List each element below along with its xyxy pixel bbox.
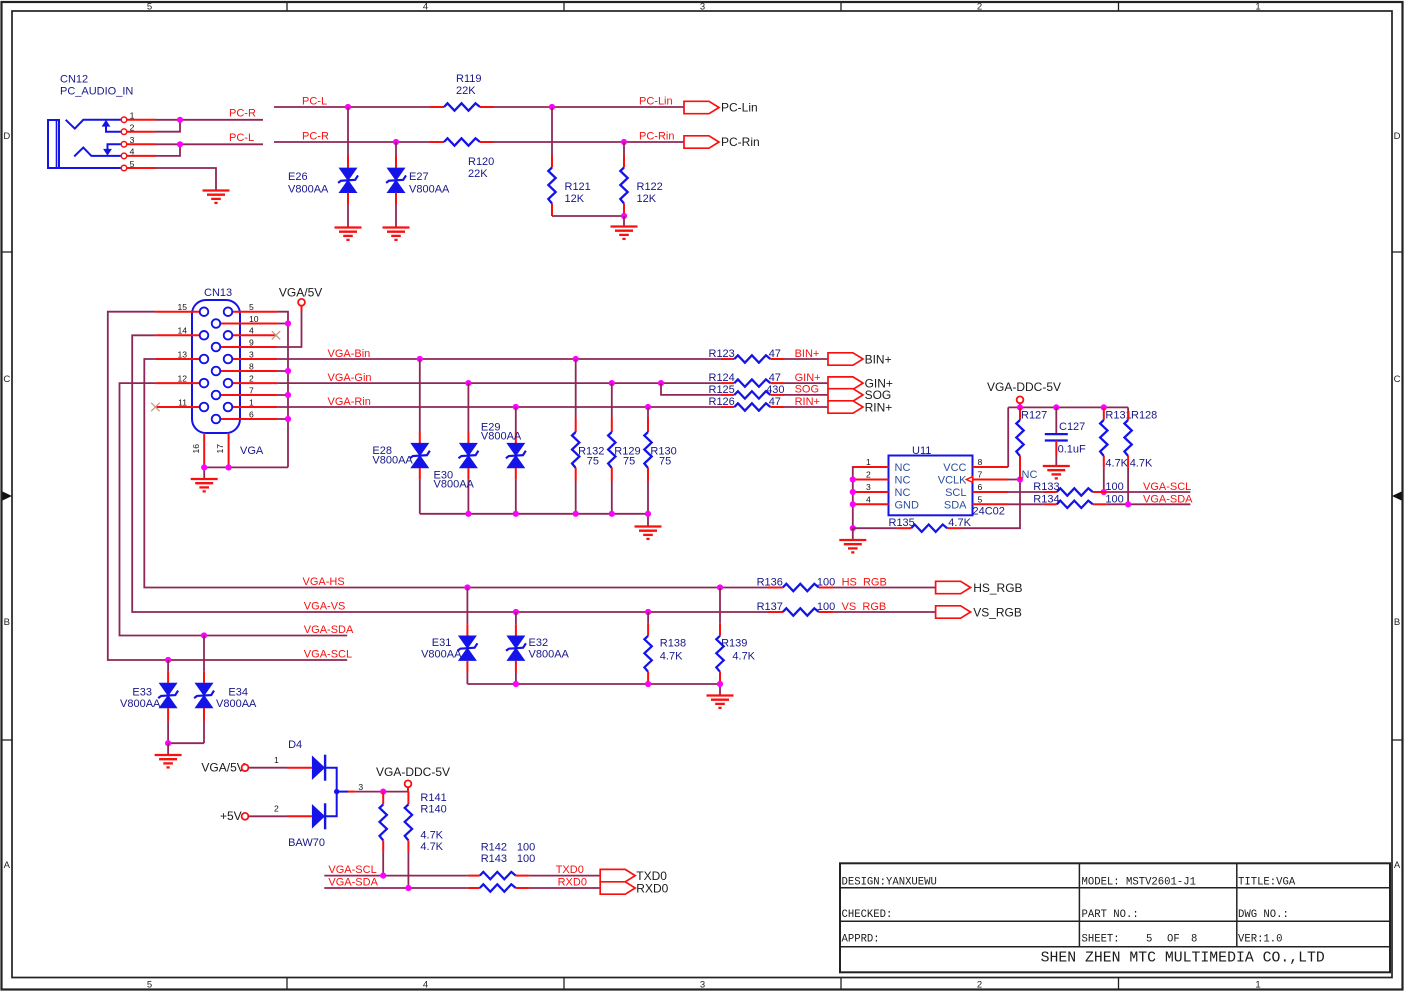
svg-text:11: 11 xyxy=(178,397,187,407)
svg-text:E31: E31 xyxy=(432,637,452,649)
svg-text:PC-Rin: PC-Rin xyxy=(721,135,760,149)
svg-text:100: 100 xyxy=(517,841,535,853)
resistor R138 4.7K xyxy=(644,612,686,684)
svg-text:B: B xyxy=(4,617,10,628)
svg-text:D: D xyxy=(1394,131,1401,142)
svg-text:VGA: VGA xyxy=(240,445,264,457)
svg-text:6: 6 xyxy=(249,409,254,419)
svg-text:VGA-Gin: VGA-Gin xyxy=(328,372,372,384)
svg-text:RIN+: RIN+ xyxy=(865,400,893,414)
wire net PC-R (CN12 pins 1,2) xyxy=(156,108,263,132)
svg-text:HS_RGB: HS_RGB xyxy=(842,576,887,588)
title block xyxy=(840,863,1390,972)
svg-text:R122: R122 xyxy=(637,181,663,193)
wire net VGA-SCL at U11 pin 6 xyxy=(1101,481,1192,495)
svg-text:DESIGN:YANXUEWU: DESIGN:YANXUEWU xyxy=(842,877,937,889)
svg-text:R121: R121 xyxy=(565,181,591,193)
TVS diode E29 V800AA xyxy=(481,407,526,514)
wire CN12 pin5 to ground xyxy=(156,168,216,190)
svg-text:4.7K: 4.7K xyxy=(420,830,443,842)
TVS diode E28 V800AA xyxy=(372,359,429,514)
svg-text:E32: E32 xyxy=(529,637,549,649)
ground at U11 pin 4 xyxy=(839,540,866,552)
svg-text:4.7K: 4.7K xyxy=(1130,458,1153,470)
svg-text:VCLK: VCLK xyxy=(938,475,967,487)
svg-text:1: 1 xyxy=(1255,980,1260,991)
svg-text:17: 17 xyxy=(215,444,225,454)
svg-text:PC-R: PC-R xyxy=(229,108,256,120)
svg-text:R126: R126 xyxy=(709,396,735,408)
svg-text:1: 1 xyxy=(1255,1,1260,12)
svg-text:R125: R125 xyxy=(709,384,735,396)
svg-text:R127: R127 xyxy=(1021,410,1047,422)
svg-text:V800AA: V800AA xyxy=(288,184,329,196)
svg-text:4: 4 xyxy=(423,1,428,12)
svg-text:4.7K: 4.7K xyxy=(948,517,971,529)
svg-text:VGA-SCL: VGA-SCL xyxy=(1143,481,1191,493)
wire net VGA-SDA (DDC to RXD0) xyxy=(324,877,468,892)
svg-text:100: 100 xyxy=(817,576,835,588)
svg-text:R135: R135 xyxy=(889,517,915,529)
svg-text:R143: R143 xyxy=(481,853,507,865)
port RXD0 xyxy=(529,877,669,896)
svg-text:22K: 22K xyxy=(468,168,488,180)
ground at CN13 shell xyxy=(191,479,218,491)
svg-text:0.1uF: 0.1uF xyxy=(1058,443,1086,455)
svg-text:RXD0: RXD0 xyxy=(636,881,668,895)
svg-text:R139: R139 xyxy=(721,637,747,649)
resistor R133 100 xyxy=(1033,481,1123,496)
svg-text:VS_RGB: VS_RGB xyxy=(973,605,1022,619)
svg-text:VGA-SCL: VGA-SCL xyxy=(304,649,352,661)
svg-text:NC: NC xyxy=(895,487,911,499)
svg-text:PC-Lin: PC-Lin xyxy=(721,101,758,115)
TVS diode E33 V800AA xyxy=(120,660,178,743)
svg-text:47: 47 xyxy=(769,396,781,408)
svg-text:+5V: +5V xyxy=(220,809,242,823)
svg-text:R140: R140 xyxy=(420,803,446,815)
svg-text:VGA/5V: VGA/5V xyxy=(201,760,244,774)
svg-text:E34: E34 xyxy=(228,686,248,698)
resistor R127 xyxy=(1016,407,1047,479)
svg-text:V800AA: V800AA xyxy=(216,698,257,710)
svg-text:5: 5 xyxy=(978,494,983,504)
svg-text:VS_RGB: VS_RGB xyxy=(842,601,887,613)
wire CN13 ground bus pins 5,10,8,7,6 xyxy=(277,312,291,468)
svg-text:VGA-SCL: VGA-SCL xyxy=(328,864,376,876)
svg-text:10: 10 xyxy=(249,314,259,324)
svg-text:SHEET:: SHEET: xyxy=(1082,934,1120,946)
resistor R125 430 xyxy=(709,384,785,399)
wire RGB termination bus xyxy=(420,511,651,526)
svg-text:R137: R137 xyxy=(757,601,783,613)
wire net VGA-SCL (DDC to TXD0) xyxy=(324,864,468,879)
svg-text:D4: D4 xyxy=(288,739,302,751)
svg-text:75: 75 xyxy=(659,455,671,467)
svg-text:E27: E27 xyxy=(409,171,429,183)
svg-text:8: 8 xyxy=(1191,934,1197,946)
svg-text:75: 75 xyxy=(587,455,599,467)
power symbol +5V at D4 pin 2 xyxy=(220,803,312,823)
svg-text:C: C xyxy=(3,374,10,385)
resistor R128 4.7K xyxy=(1124,407,1157,504)
svg-text:NC: NC xyxy=(895,475,911,487)
wire net VGA-SDA at U11 pin 5 xyxy=(1107,494,1193,508)
svg-text:2: 2 xyxy=(249,374,254,384)
port TXD0 xyxy=(529,864,667,883)
svg-text:D: D xyxy=(3,131,10,142)
wire net VGA-VS from CN13 pin 14 xyxy=(132,335,783,615)
svg-text:2: 2 xyxy=(977,980,982,991)
svg-text:GND: GND xyxy=(895,499,920,511)
wire net VGA-Bin from CN13 pin 3 xyxy=(277,348,720,362)
svg-text:VGA-SDA: VGA-SDA xyxy=(328,877,378,889)
wire net VGA-Rin from CN13 pin 1 xyxy=(277,396,720,410)
svg-text:100: 100 xyxy=(1105,493,1123,505)
svg-text:SOG: SOG xyxy=(795,384,819,396)
svg-text:VGA-Rin: VGA-Rin xyxy=(328,396,371,408)
power symbol VGA/5V at D4 pin 1 xyxy=(201,755,312,775)
resistor R121 12K xyxy=(548,107,590,216)
svg-text:A: A xyxy=(4,860,11,871)
port PC-Rin xyxy=(639,130,760,149)
svg-text:4: 4 xyxy=(866,494,871,504)
ground at R122 xyxy=(611,227,638,239)
svg-text:47: 47 xyxy=(769,372,781,384)
svg-text:V800AA: V800AA xyxy=(481,431,522,443)
resistor R141 4.7K xyxy=(380,792,447,876)
ground at C127 xyxy=(1043,466,1070,478)
svg-text:4.7K: 4.7K xyxy=(660,651,683,663)
power symbol VGA-DDC-5V at U11 xyxy=(987,380,1061,408)
svg-text:1: 1 xyxy=(866,457,871,467)
wire R121 bottom to R122 bottom xyxy=(552,215,624,217)
ground at E33/E34 xyxy=(155,755,182,767)
svg-text:PC-L: PC-L xyxy=(229,132,254,144)
svg-text:16: 16 xyxy=(191,444,201,454)
resistor R126 47 xyxy=(709,396,785,411)
svg-text:8: 8 xyxy=(249,361,254,371)
TVS diode E30 V800AA xyxy=(434,383,479,514)
svg-text:V800AA: V800AA xyxy=(372,454,413,466)
svg-text:BAW70: BAW70 xyxy=(288,837,325,849)
wire R135 to U11 pin 7 VCLK xyxy=(961,469,1037,528)
svg-text:5: 5 xyxy=(147,1,152,12)
diode D4 BAW70 dual common-cathode xyxy=(288,739,348,849)
svg-text:9: 9 xyxy=(249,337,254,347)
svg-text:3: 3 xyxy=(700,980,705,991)
TVS diode E32 V800AA xyxy=(506,612,570,684)
svg-text:3: 3 xyxy=(249,349,254,359)
svg-text:OF: OF xyxy=(1167,934,1180,946)
ground at E26 xyxy=(335,228,362,240)
svg-text:V800AA: V800AA xyxy=(434,478,475,490)
port GIN+ xyxy=(784,372,893,391)
svg-text:V800AA: V800AA xyxy=(120,698,161,710)
svg-text:8: 8 xyxy=(978,457,983,467)
svg-text:2: 2 xyxy=(977,1,982,12)
svg-text:R141: R141 xyxy=(420,792,446,804)
svg-text:R120: R120 xyxy=(468,156,494,168)
svg-text:BIN+: BIN+ xyxy=(865,352,892,366)
svg-text:R124: R124 xyxy=(709,372,735,384)
svg-text:1: 1 xyxy=(130,111,135,121)
svg-text:PC-L: PC-L xyxy=(302,95,327,107)
TVS diode E31 V800AA xyxy=(421,588,477,685)
svg-text:DWG NO.:: DWG NO.: xyxy=(1238,909,1289,921)
svg-text:7: 7 xyxy=(249,385,254,395)
wire net SOG branch from VGA-Gin xyxy=(661,383,721,395)
ground at E27 xyxy=(383,228,410,240)
svg-text:C: C xyxy=(1394,374,1401,385)
svg-text:2: 2 xyxy=(274,803,279,813)
svg-text:3: 3 xyxy=(700,1,705,12)
svg-text:5: 5 xyxy=(147,980,152,991)
svg-text:GIN+: GIN+ xyxy=(795,372,821,384)
wire net VGA-SDA from CN13 pin 12 xyxy=(120,383,354,639)
wire net VGA-Gin from CN13 pin 2 xyxy=(277,372,720,386)
svg-text:V800AA: V800AA xyxy=(421,649,462,661)
svg-text:SDA: SDA xyxy=(944,499,967,511)
power symbol VGA/5V at CN13 pin 9 xyxy=(277,286,322,347)
wire VGA-DDC-5V rail xyxy=(1008,404,1128,467)
resistor R123 47 xyxy=(709,348,785,363)
svg-text:CHECKED:: CHECKED: xyxy=(842,909,893,921)
resistor R134 100 xyxy=(1033,493,1123,508)
resistor R139 4.7K xyxy=(716,588,755,685)
svg-text:R142: R142 xyxy=(481,841,507,853)
wire net PC-L (to R119 and PC-Lin) xyxy=(274,95,684,110)
svg-text:R123: R123 xyxy=(709,348,735,360)
svg-text:SCL: SCL xyxy=(945,487,966,499)
svg-text:4: 4 xyxy=(130,147,135,157)
svg-text:NC: NC xyxy=(1022,469,1038,481)
svg-text:R138: R138 xyxy=(660,637,686,649)
resistor R122 12K xyxy=(620,142,662,226)
svg-text:5: 5 xyxy=(130,159,135,169)
svg-text:R128: R128 xyxy=(1131,410,1157,422)
svg-text:VGA/5V: VGA/5V xyxy=(279,286,322,300)
wire CN13 pins 16,17 to ground xyxy=(201,464,288,478)
svg-text:PC_AUDIO_IN: PC_AUDIO_IN xyxy=(60,86,133,98)
ground at HS/VS bus xyxy=(707,696,734,708)
IC U11 24C02 EEPROM xyxy=(853,445,1043,518)
no-connect cross CN13 pin 11 xyxy=(151,403,159,411)
svg-text:12: 12 xyxy=(177,374,187,384)
resistor R142 100 xyxy=(468,841,535,879)
connector CN12 PC_AUDIO_IN xyxy=(48,74,156,171)
TVS diode E34 V800AA xyxy=(194,636,257,744)
resistor R130 75 xyxy=(644,407,676,514)
svg-text:1: 1 xyxy=(274,755,279,765)
svg-text:5: 5 xyxy=(1146,934,1152,946)
svg-text:14: 14 xyxy=(177,326,187,336)
port RIN+ xyxy=(784,396,892,415)
connector CN13 VGA DB15 xyxy=(155,287,277,466)
svg-text:2: 2 xyxy=(866,470,871,480)
svg-text:12K: 12K xyxy=(565,193,585,205)
svg-text:R134: R134 xyxy=(1033,493,1059,505)
wire net VGA-DDC-5V node 3 xyxy=(348,782,408,795)
svg-text:PART NO.:: PART NO.: xyxy=(1082,909,1139,921)
svg-text:TXD0: TXD0 xyxy=(556,864,584,876)
svg-text:100: 100 xyxy=(517,853,535,865)
TVS diode E27 V800AA xyxy=(386,142,450,227)
svg-text:SHEN ZHEN MTC MULTIMEDIA CO.,L: SHEN ZHEN MTC MULTIMEDIA CO.,LTD xyxy=(1041,951,1325,967)
wire net PC-R (to R120 and PC-Rin) xyxy=(274,130,684,145)
svg-text:R136: R136 xyxy=(757,576,783,588)
svg-text:4.7K: 4.7K xyxy=(420,841,443,853)
svg-text:BIN+: BIN+ xyxy=(795,348,820,360)
svg-text:3: 3 xyxy=(358,782,363,792)
svg-text:47: 47 xyxy=(769,348,781,360)
wire R137 feed from VGA-VS xyxy=(767,611,769,613)
svg-text:CN12: CN12 xyxy=(60,74,88,86)
resistor R131 4.7K xyxy=(1100,407,1132,492)
resistor R135 4.7K xyxy=(853,517,972,532)
svg-text:HS_RGB: HS_RGB xyxy=(973,581,1022,595)
power symbol VGA-DDC-5V at D4 xyxy=(376,765,450,792)
svg-text:PC-R: PC-R xyxy=(302,130,329,142)
svg-text:22K: 22K xyxy=(456,85,476,97)
wire net PC-L (CN12 pins 3,4) xyxy=(156,132,263,156)
svg-text:VGA-VS: VGA-VS xyxy=(304,601,346,613)
wire E33/E34 common to ground xyxy=(165,740,204,754)
svg-text:VCC: VCC xyxy=(943,462,966,474)
port HS_RGB xyxy=(833,576,1023,595)
svg-text:6: 6 xyxy=(978,482,983,492)
TVS diode E26 V800AA xyxy=(288,107,358,227)
svg-text:RIN+: RIN+ xyxy=(795,396,820,408)
svg-text:TITLE:VGA: TITLE:VGA xyxy=(1238,877,1296,889)
resistor R140 4.7K xyxy=(405,792,447,888)
resistor R119 22K xyxy=(430,73,494,111)
svg-text:VER:1.0: VER:1.0 xyxy=(1238,934,1283,946)
svg-text:430: 430 xyxy=(766,384,784,396)
port VS_RGB xyxy=(833,601,1022,620)
svg-text:PC-Lin: PC-Lin xyxy=(639,95,673,107)
resistor R137 100 xyxy=(757,601,836,616)
svg-text:4.7K: 4.7K xyxy=(1105,458,1128,470)
svg-text:75: 75 xyxy=(623,455,635,467)
svg-text:V800AA: V800AA xyxy=(409,184,450,196)
port PC-Lin xyxy=(639,95,758,114)
svg-text:R133: R133 xyxy=(1033,481,1059,493)
wire net VGA-HS from CN13 pin 13 xyxy=(144,359,768,591)
svg-text:3: 3 xyxy=(866,482,871,492)
svg-text:VGA-DDC-5V: VGA-DDC-5V xyxy=(376,765,450,779)
resistor R143 100 xyxy=(468,853,535,892)
wire HS/VS termination bus xyxy=(467,681,723,695)
resistor R129 75 xyxy=(608,383,640,514)
svg-text:4.7K: 4.7K xyxy=(732,651,755,663)
svg-text:V800AA: V800AA xyxy=(529,649,570,661)
svg-text:24C02: 24C02 xyxy=(973,506,1005,518)
resistor R124 47 xyxy=(709,372,785,387)
svg-text:E26: E26 xyxy=(288,171,308,183)
svg-text:VGA-Bin: VGA-Bin xyxy=(328,348,371,360)
svg-text:RXD0: RXD0 xyxy=(558,877,587,889)
resistor R120 22K xyxy=(430,138,494,180)
wire U11 pins 1-4 common to ground xyxy=(850,467,856,540)
svg-text:13: 13 xyxy=(177,349,187,359)
svg-text:C127: C127 xyxy=(1059,421,1085,433)
svg-text:VGA-HS: VGA-HS xyxy=(303,576,345,588)
ground at RGB bus xyxy=(635,527,662,539)
no-connect cross CN13 pin 4 xyxy=(272,331,280,339)
svg-text:NC: NC xyxy=(895,462,911,474)
svg-text:1: 1 xyxy=(249,397,254,407)
capacitor C127 0.1uF xyxy=(1045,407,1086,465)
svg-text:4: 4 xyxy=(249,326,254,336)
svg-text:CN13: CN13 xyxy=(204,287,232,299)
port BIN+ xyxy=(784,348,892,367)
svg-text:PC-Rin: PC-Rin xyxy=(639,130,674,142)
resistor R136 100 xyxy=(757,576,836,591)
svg-text:15: 15 xyxy=(177,302,187,312)
resistor R132 75 xyxy=(572,359,604,514)
svg-text:100: 100 xyxy=(817,601,835,613)
svg-text:A: A xyxy=(1394,860,1401,871)
wire net VGA-SCL from CN13 pin 15 xyxy=(108,312,352,663)
ground at CN12 pin5 xyxy=(203,191,230,203)
svg-text:12K: 12K xyxy=(637,193,657,205)
svg-text:4: 4 xyxy=(423,980,428,991)
svg-text:5: 5 xyxy=(249,302,254,312)
svg-text:VGA-DDC-5V: VGA-DDC-5V xyxy=(987,380,1061,394)
svg-text:R119: R119 xyxy=(456,73,481,85)
svg-text:100: 100 xyxy=(1105,481,1123,493)
svg-text:APPRD:: APPRD: xyxy=(842,934,880,946)
port SOG xyxy=(784,384,891,403)
svg-text:VGA-SDA: VGA-SDA xyxy=(304,624,354,636)
svg-text:2: 2 xyxy=(130,123,135,133)
svg-text:3: 3 xyxy=(130,135,135,145)
svg-text:MODEL: MSTV2601-J1: MODEL: MSTV2601-J1 xyxy=(1082,877,1196,889)
svg-text:7: 7 xyxy=(978,470,983,480)
svg-text:VGA-SDA: VGA-SDA xyxy=(1143,494,1193,506)
svg-text:E33: E33 xyxy=(132,686,152,698)
svg-text:B: B xyxy=(1394,617,1400,628)
